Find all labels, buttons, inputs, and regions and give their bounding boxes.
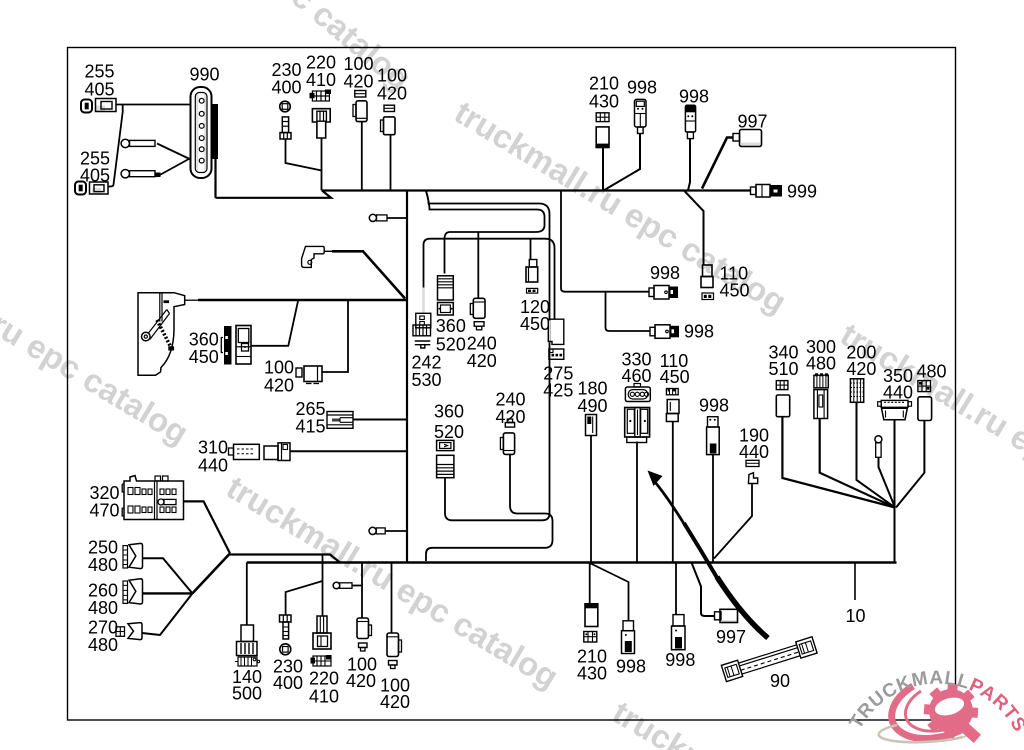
wire 240/420-1 drop <box>477 232 479 298</box>
lever assembly <box>138 293 185 376</box>
border frame <box>68 48 956 721</box>
connector 310/440 <box>229 443 291 461</box>
wire 210/430 top drop <box>602 148 604 191</box>
wire 210/430 bottom drop <box>589 563 591 604</box>
connector 990 strip <box>191 87 212 178</box>
svg-text:998: 998 <box>679 87 709 107</box>
wire 242/530 to 275/425 arch <box>424 239 555 319</box>
connector 275/425 <box>548 319 564 359</box>
svg-text:420: 420 <box>344 72 374 92</box>
svg-text:400: 400 <box>273 673 303 693</box>
svg-text:998: 998 <box>684 322 714 342</box>
wire 997 top diagonal <box>702 138 734 189</box>
connector 190/440 <box>746 460 759 483</box>
wire 100/420-b2 drop <box>391 563 393 634</box>
connector 100/420 bottom1 <box>357 618 372 651</box>
connector 242/530 <box>413 313 431 348</box>
connector 140/500 <box>235 625 260 666</box>
svg-text:480: 480 <box>917 362 947 382</box>
svg-text:440: 440 <box>198 456 228 476</box>
svg-text:420: 420 <box>496 407 526 427</box>
wire fan 200/420 <box>857 403 896 508</box>
svg-text:420: 420 <box>846 359 876 379</box>
wire 990 thick bundle <box>212 104 219 159</box>
svg-text:480: 480 <box>88 555 118 575</box>
bullet connector lower-left <box>369 527 385 534</box>
svg-text:420: 420 <box>264 376 294 396</box>
wire merge M2 to M1 <box>192 553 230 593</box>
connector 100/420 top1 <box>353 91 367 122</box>
svg-text:500: 500 <box>232 684 262 704</box>
wire bottom bus <box>247 561 897 563</box>
svg-text:450: 450 <box>660 367 690 387</box>
svg-text:470: 470 <box>90 501 120 521</box>
connector 998 mid1 <box>649 286 678 300</box>
bullet connector upper-left <box>369 214 387 221</box>
svg-text:997: 997 <box>738 112 768 132</box>
arrow head <box>648 471 663 487</box>
svg-text:220: 220 <box>309 669 339 689</box>
connector 360/450 pair <box>221 326 251 365</box>
connector 120/450 <box>526 260 538 294</box>
connector 265/415 <box>327 412 353 429</box>
connector 998 top2 <box>685 105 695 138</box>
wire 230/400+220/410 top to bus <box>286 139 322 191</box>
wire 320/470 to merge M1 <box>184 501 230 553</box>
wire 998 top1 drop <box>604 134 641 191</box>
wire lever to trunk <box>185 299 198 301</box>
wire top bus lower taper <box>216 191 332 198</box>
svg-text:90: 90 <box>770 671 790 691</box>
svg-text:490: 490 <box>578 396 608 416</box>
connector 110/450 right <box>666 389 679 422</box>
svg-text:100: 100 <box>264 358 294 378</box>
connector 220/410 bottom <box>311 616 332 666</box>
wire 270/480 <box>142 593 192 635</box>
connector 210/430 bottom <box>584 604 598 642</box>
connector 100/420 mid <box>296 366 322 384</box>
wire loop inner U <box>426 191 545 274</box>
wire 990 bundle stub <box>214 155 216 198</box>
connector 210/430 top <box>596 113 609 148</box>
probe terminal 1 <box>121 139 155 147</box>
wire bullet upper to trunk <box>387 217 407 219</box>
arrow curve <box>653 479 687 527</box>
svg-text:450: 450 <box>520 314 550 334</box>
svg-text:425: 425 <box>543 381 573 401</box>
wire probe2 to 990 <box>157 159 190 177</box>
connector 360/520 #2 <box>437 440 454 477</box>
wire 998 b2 drop <box>675 563 677 615</box>
connector 100/420 top2 <box>381 105 396 135</box>
wire bus to 998 mid pair <box>561 191 649 292</box>
wire fan 340/510 <box>782 417 895 508</box>
svg-text:420: 420 <box>377 84 407 104</box>
connector 340/510 <box>776 381 789 417</box>
wire probe1 to 990 <box>157 144 190 160</box>
wire 998 top2 drop <box>688 139 690 191</box>
svg-text:480: 480 <box>88 635 118 655</box>
connector 350/440 <box>878 400 912 419</box>
svg-text:450: 450 <box>189 347 219 367</box>
svg-text:360: 360 <box>434 402 464 422</box>
wire loop outer: bus to 360/520-2 via right side <box>426 191 550 520</box>
wire 997 bottom <box>692 563 715 616</box>
connector 180/490 <box>586 415 597 436</box>
wire 110/450 mid diagonal <box>684 191 704 266</box>
svg-text:990: 990 <box>190 65 220 85</box>
connector 260/480 <box>123 579 143 604</box>
svg-text:998: 998 <box>699 396 729 416</box>
wire 140/500 drop <box>246 563 248 626</box>
wire 360/450 merge <box>251 301 298 346</box>
wire fan 300/480 <box>820 419 895 508</box>
wire bullet b1 <box>352 585 362 587</box>
svg-text:310: 310 <box>198 438 228 458</box>
connector 998 right <box>707 417 720 455</box>
connector 330/460 <box>625 384 651 443</box>
wire bracket 310 thick <box>324 250 332 252</box>
svg-text:480: 480 <box>88 598 118 618</box>
wire 998 b1 drop <box>590 563 629 621</box>
svg-text:10: 10 <box>846 606 866 626</box>
wire 255/405-1 down to 255/405-2 <box>108 105 123 187</box>
wire 180/490 drop <box>590 436 592 563</box>
svg-text:480: 480 <box>806 354 836 374</box>
connector 998 bottom2 <box>672 615 686 650</box>
connector 240/420 #1 <box>470 298 485 330</box>
wire fan 480 <box>896 421 924 508</box>
connector 100/420 bottom2 <box>387 633 402 669</box>
connector 480 right <box>918 381 932 421</box>
wire 310/440 to trunk <box>290 450 406 452</box>
wire bullet lower to trunk <box>385 530 407 532</box>
svg-text:430: 430 <box>577 664 607 684</box>
connector 360/520 #1 <box>438 276 454 315</box>
svg-text:998: 998 <box>665 650 695 670</box>
svg-text:450: 450 <box>720 281 750 301</box>
wire 255/405-1 to 990 <box>116 104 192 106</box>
wire 100/420 mid drop <box>322 301 349 372</box>
svg-text:520: 520 <box>434 422 464 442</box>
connector 230/400 top bolt <box>280 101 291 139</box>
wire fan bullet <box>879 458 896 508</box>
svg-text:420: 420 <box>346 671 376 691</box>
svg-text:440: 440 <box>883 383 913 403</box>
svg-text:415: 415 <box>296 417 326 437</box>
bracket 310 <box>302 246 325 267</box>
connector 998 top1 <box>635 99 647 133</box>
svg-text:210: 210 <box>589 74 619 94</box>
wire top bus <box>322 189 751 191</box>
bullet connector fan <box>875 436 882 458</box>
wire 100/420-2 top drop <box>390 135 392 191</box>
logo gear <box>917 677 988 750</box>
connector 997 bottom <box>715 609 738 623</box>
logo shadow <box>879 725 963 742</box>
svg-text:998: 998 <box>627 78 657 98</box>
svg-text:100: 100 <box>377 66 407 86</box>
wire 100/420-b1 drop <box>361 563 363 619</box>
connector 255/405 #1 <box>81 99 116 113</box>
svg-text:520: 520 <box>436 335 466 355</box>
svg-text:510: 510 <box>769 359 799 379</box>
connector 998 mid2 <box>650 325 679 339</box>
wire 330/460 drop <box>636 442 638 563</box>
svg-text:998: 998 <box>616 657 646 677</box>
connector 240/420 #2 <box>500 419 514 454</box>
connector 998 bottom1 <box>622 621 635 654</box>
bullet connector bottom <box>333 582 352 589</box>
svg-text:255: 255 <box>85 62 115 82</box>
svg-text:405: 405 <box>85 80 115 100</box>
svg-text:430: 430 <box>589 92 619 112</box>
wire 230/400 bottom <box>286 581 323 615</box>
connector 250/480 <box>123 543 143 568</box>
logo swoosh <box>892 686 968 738</box>
connector 300/480 <box>814 373 828 418</box>
connector 997 top <box>733 130 762 147</box>
wire trunk vertical <box>406 191 408 562</box>
wire fan vertical 350/440 <box>894 421 896 563</box>
connector 200/420 <box>850 379 863 403</box>
wire 100/420-1 top drop <box>361 122 363 191</box>
wire 250/480 <box>142 558 192 593</box>
wire 998 mid2 branch <box>606 292 651 331</box>
connector 320/470 comb <box>122 476 183 520</box>
wire 265/415 to trunk <box>353 419 406 421</box>
svg-text:530: 530 <box>412 370 442 390</box>
svg-text:410: 410 <box>309 687 339 707</box>
connector 230/400 bottom bolt <box>280 615 292 655</box>
svg-text:420: 420 <box>380 692 410 712</box>
svg-text:410: 410 <box>306 70 336 90</box>
probe terminal 2 <box>121 170 160 178</box>
wire bottom merge line <box>230 555 340 563</box>
rail 90 <box>721 637 817 682</box>
connector 255/405 #2 <box>75 182 108 195</box>
wire 998 right drop <box>712 455 714 563</box>
connector 220/410 top <box>310 90 332 139</box>
svg-text:997: 997 <box>716 627 746 647</box>
wire 190/440 drop <box>714 484 752 559</box>
wire 120/450 drop <box>530 239 532 260</box>
wire 260/480 <box>142 592 192 594</box>
connector 110/450 mid <box>701 265 714 300</box>
svg-text:420: 420 <box>467 351 497 371</box>
connector 999 <box>751 185 783 198</box>
wire 220/410 bottom drop <box>322 555 324 616</box>
svg-text:400: 400 <box>272 78 302 98</box>
wire 10 tick <box>854 563 856 601</box>
wire 110/450 right drop <box>672 422 674 563</box>
wire 242/530 gray segment <box>422 288 425 314</box>
svg-text:999: 999 <box>787 182 817 202</box>
svg-text:360: 360 <box>436 316 466 336</box>
svg-text:998: 998 <box>650 263 680 283</box>
connector 270/480 <box>116 623 142 640</box>
svg-text:440: 440 <box>739 442 769 462</box>
wire 240/420-2 to bus arch <box>426 455 553 561</box>
